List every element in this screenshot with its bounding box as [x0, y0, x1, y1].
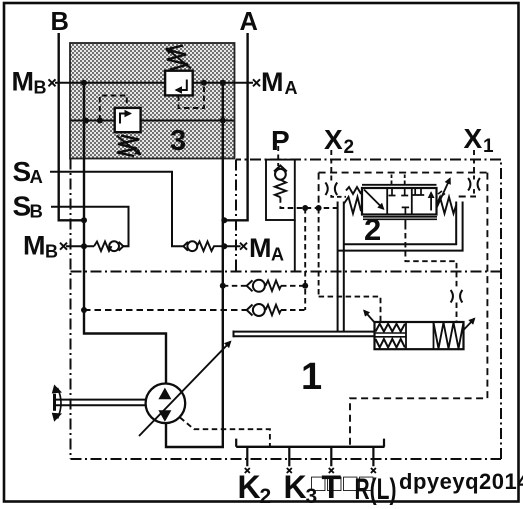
valve 2 left spring	[344, 197, 362, 214]
plugged-port x markers	[49, 79, 376, 473]
label K3	[284, 469, 318, 508]
svg-text:3: 3	[170, 125, 186, 157]
svg-text:B: B	[45, 242, 58, 262]
valve 2 right spring	[437, 197, 457, 214]
svg-text:B: B	[34, 78, 47, 98]
label MB (lower)	[23, 231, 58, 262]
pilot line to valve 1 left cap (dashed)	[319, 297, 381, 322]
svg-text:1: 1	[301, 356, 322, 398]
check valve with spring at MA port	[183, 241, 224, 251]
orifice at X1	[468, 178, 480, 191]
wire: B-side inner line down to pump inlet	[84, 83, 166, 384]
port X1 pilot line (dashed)	[473, 150, 475, 180]
tank/drain manifold	[236, 439, 384, 467]
svg-text:M: M	[249, 233, 272, 263]
assembly boundary (dash-dot frame)	[71, 159, 502, 460]
wire: SB line	[51, 207, 129, 246]
wire: SA line	[50, 172, 183, 247]
port X2 pilot line (dashed)	[330, 150, 332, 184]
watermark	[311, 469, 523, 497]
label MB (upper)	[12, 67, 47, 98]
svg-text:B: B	[51, 8, 69, 36]
wire: A-side inner line down to pump outlet	[166, 83, 223, 447]
svg-text:A: A	[30, 166, 43, 187]
svg-text:A: A	[285, 78, 298, 98]
valve 1 setting arrow left	[364, 311, 375, 324]
relief-valve block 3 shaded body	[70, 43, 235, 159]
orifice at X2	[325, 183, 337, 196]
wire: MB port stub	[66, 245, 94, 247]
pilot line of upper relief valve (dashed)	[179, 84, 205, 108]
svg-text:M: M	[261, 67, 284, 97]
svg-text:S: S	[13, 156, 32, 187]
label MA (upper)	[261, 67, 298, 98]
pilot check valve row 2 (B side, dashed)	[84, 304, 305, 316]
pilot check valve row 1 (A side, dashed)	[223, 280, 305, 292]
label X2	[324, 124, 354, 158]
X1 long pilot line down to tank rail (dashed)	[350, 173, 487, 447]
svg-text:R(L): R(L)	[355, 473, 397, 506]
wire: lower cross line in block 3	[71, 120, 234, 122]
svg-text:X: X	[324, 124, 343, 155]
pump variable-displacement arrow	[139, 342, 231, 437]
svg-text:A: A	[271, 245, 284, 265]
X2 orifice to valve spring (dashed + damp spring)	[331, 187, 363, 197]
relief valve (lower, B-side) in block 3	[115, 108, 141, 156]
wire: port A line	[224, 33, 247, 220]
wire: MA port stub	[224, 245, 240, 247]
label K2	[238, 469, 272, 508]
pump pressure rail (double line) to valve 2	[338, 202, 344, 332]
valve 1 setting arrow right	[464, 319, 475, 331]
pilot connector between check rows (dashed)	[304, 208, 306, 310]
svg-text:A: A	[240, 8, 258, 36]
svg-text:2: 2	[344, 137, 355, 158]
drain line from P box to boundary	[294, 220, 296, 272]
svg-text:S: S	[13, 191, 32, 222]
power/pressure regulator valve 1	[375, 322, 464, 349]
LS control valve 2 body	[362, 175, 437, 220]
X1 orifice into enclosure (dashed)	[473, 189, 475, 196]
junction dots	[81, 80, 322, 313]
svg-text:K: K	[238, 469, 261, 505]
relief valve (upper, A-side) in block 3	[165, 46, 193, 96]
svg-text:1: 1	[483, 136, 494, 157]
spring-cap feedback line (double U)	[338, 202, 463, 251]
shaft rotation arrows	[52, 385, 62, 422]
svg-text:K: K	[284, 469, 307, 505]
pump case drain (dashed)	[180, 418, 270, 447]
pump outlet double line	[234, 331, 375, 338]
pilot branch down from P rail to check rows (dashed)	[318, 208, 320, 297]
wire: port B line	[59, 33, 84, 220]
check valve with spring at MB port	[94, 241, 129, 251]
label MA (lower)	[249, 233, 284, 265]
boost check valve box at port P	[266, 146, 295, 220]
svg-text:dpyeyq2014: dpyeyq2014	[399, 469, 523, 494]
svg-text:2: 2	[364, 212, 381, 247]
svg-text:X: X	[464, 123, 483, 154]
valve 2 remote-control dashed enclosure	[319, 173, 488, 208]
valve 2 setting arrow (right)	[437, 179, 451, 209]
pilot line of lower relief valve (dashed)	[100, 96, 127, 121]
svg-text:M: M	[12, 67, 35, 97]
svg-text:2: 2	[260, 485, 272, 508]
orifice in LS pilot line	[451, 290, 463, 303]
wire: MB-MA gauge line (upper)	[55, 82, 253, 84]
pilot line from P check to pressure rail (dashed)	[280, 197, 337, 208]
variable displacement pump	[146, 384, 186, 424]
label SA	[13, 156, 43, 187]
svg-text:M: M	[23, 231, 46, 261]
svg-text:3: 3	[306, 485, 318, 508]
LS line from valve 2 to valve 1 pilot (dashed)	[405, 219, 456, 322]
svg-text:T: T	[322, 469, 342, 505]
label X1	[464, 123, 495, 157]
svg-text:P: P	[271, 125, 290, 156]
label SB	[13, 191, 43, 222]
svg-text:B: B	[30, 201, 43, 222]
drive shaft	[54, 394, 146, 411]
